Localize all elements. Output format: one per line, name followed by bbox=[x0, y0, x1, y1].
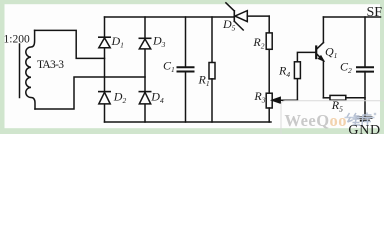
wire D1-D2 branch bbox=[104, 17, 106, 122]
green frame bottom bbox=[0, 128, 384, 134]
wire R3 to bottom bus bbox=[268, 108, 270, 122]
resistor R4 bbox=[294, 62, 300, 79]
resistor R2 bbox=[266, 33, 272, 49]
wire R2 to R3 bbox=[268, 49, 270, 93]
ground symbol bbox=[358, 118, 371, 121]
green frame right bbox=[380, 0, 384, 134]
wire Q1 collector to SF bus bbox=[322, 17, 324, 43]
green frame left bbox=[0, 0, 5, 134]
wire D3-D4 branch bbox=[144, 17, 146, 122]
transistor Q1 bbox=[316, 43, 323, 61]
diode D2 bbox=[99, 92, 110, 104]
potentiometer R3 bbox=[266, 93, 272, 108]
wire D5 to R2 bbox=[268, 16, 270, 33]
wire secondary top lead to bridge bbox=[35, 30, 105, 58]
wire secondary bottom lead to bridge bbox=[35, 77, 145, 109]
wiper arrow into R3 bbox=[272, 79, 297, 103]
capacitor C1 bbox=[178, 17, 194, 122]
watermark strike line bbox=[345, 117, 375, 119]
svg-text:SF: SF bbox=[367, 5, 383, 20]
svg-text:TA3-3: TA3-3 bbox=[37, 59, 64, 71]
watermark glyph wei bbox=[347, 113, 360, 125]
diode D3 bbox=[139, 38, 150, 49]
resistor R5 bbox=[323, 95, 365, 100]
diode D1 bbox=[99, 37, 110, 48]
watermark registered mark bbox=[374, 113, 376, 115]
watermark glyph ku bbox=[362, 113, 372, 126]
green frame top bbox=[0, 0, 384, 4]
svg-text:1:200: 1:200 bbox=[4, 34, 30, 46]
transformer T primary conductor bbox=[19, 44, 21, 98]
resistor R1 bbox=[209, 17, 215, 122]
wire top bus (rectifier output to D5) bbox=[105, 16, 235, 18]
wire SF bus bbox=[323, 16, 380, 18]
capacitor C2 bbox=[357, 17, 373, 117]
wire bottom bus bbox=[105, 121, 272, 123]
svg-text:WeeQoo: WeeQoo bbox=[285, 111, 347, 130]
wire Q1 emitter down bbox=[322, 61, 324, 98]
svg-text:GND: GND bbox=[348, 123, 380, 134]
diode D4 bbox=[139, 92, 150, 104]
watermark box bbox=[281, 101, 384, 141]
wire R4 to Q1 base bbox=[297, 52, 315, 61]
transformer T secondary winding bbox=[26, 30, 35, 109]
zener diode D5 bbox=[226, 3, 269, 30]
